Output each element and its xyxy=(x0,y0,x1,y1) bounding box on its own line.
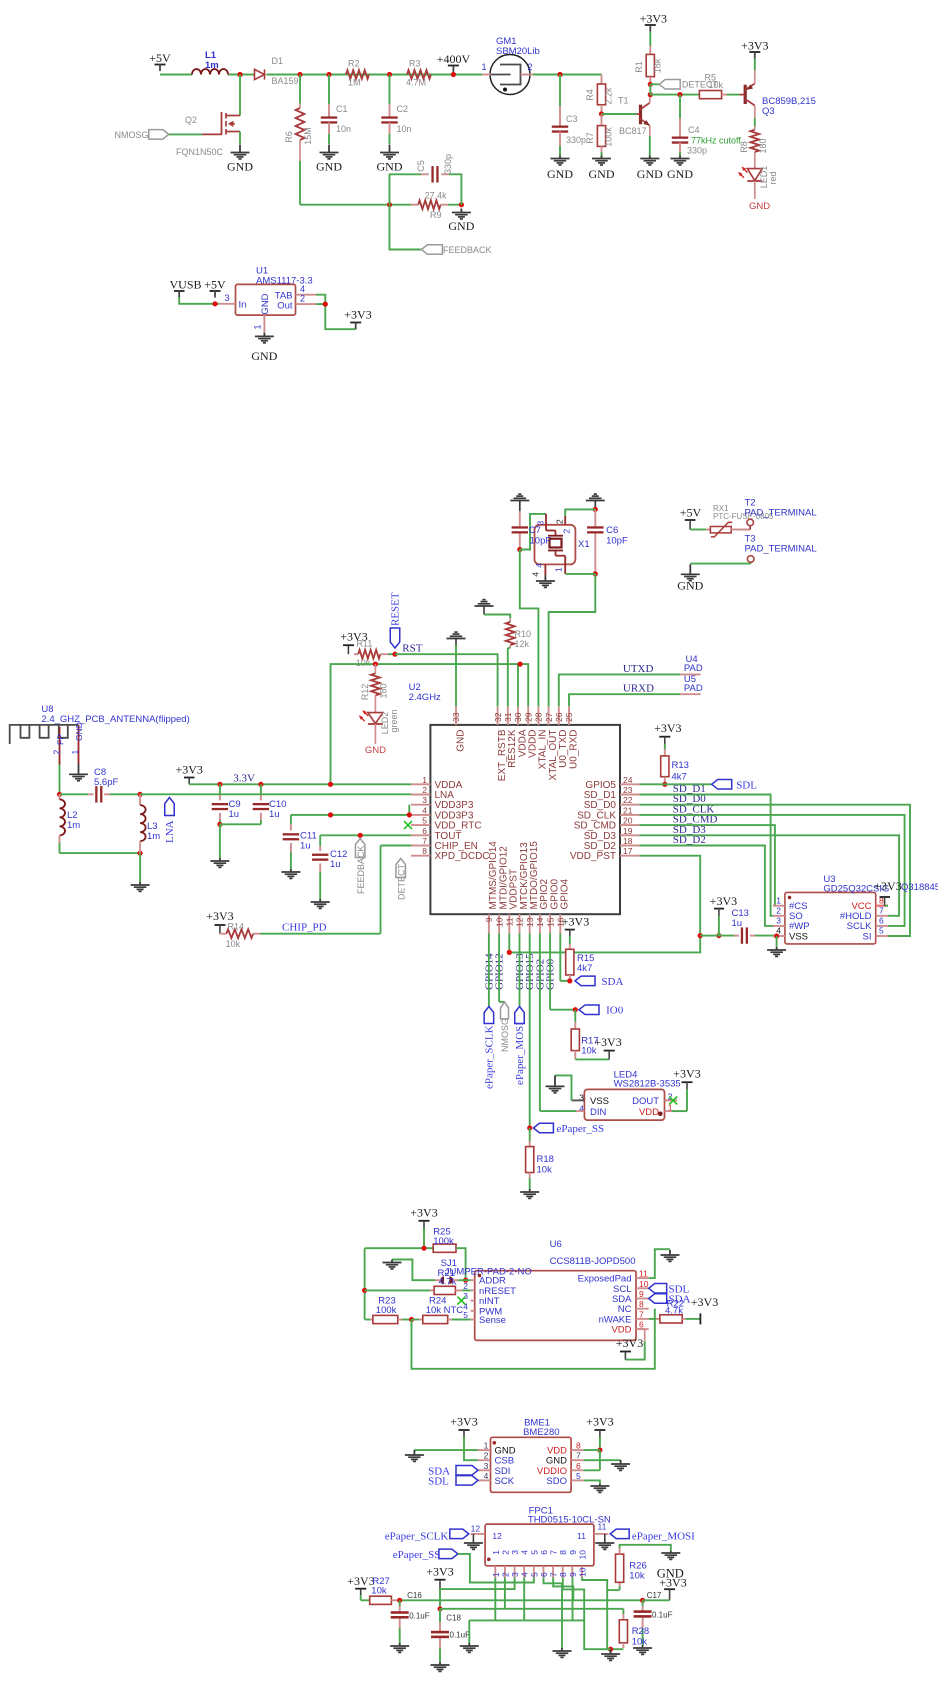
svg-text:7: 7 xyxy=(549,1550,559,1555)
svg-text:ePaper_SCLK: ePaper_SCLK xyxy=(484,1025,496,1089)
svg-text:FP: FP xyxy=(56,734,66,745)
svg-text:2: 2 xyxy=(555,519,565,524)
svg-text:6: 6 xyxy=(539,1572,549,1577)
svg-text:SDO: SDO xyxy=(546,1476,567,1487)
svg-text:9: 9 xyxy=(639,1289,644,1299)
svg-text:Q318845: Q318845 xyxy=(901,882,938,893)
svg-text:IO0: IO0 xyxy=(606,1005,624,1017)
svg-text:3: 3 xyxy=(510,1550,520,1555)
svg-text:0.1uF: 0.1uF xyxy=(450,1631,471,1640)
svg-text:ePaper_SCLK: ePaper_SCLK xyxy=(385,1531,449,1543)
svg-text:2: 2 xyxy=(776,906,781,916)
svg-text:+3V3: +3V3 xyxy=(710,894,737,908)
svg-text:CHIP_PD: CHIP_PD xyxy=(282,922,327,934)
svg-text:330p: 330p xyxy=(443,154,453,174)
svg-text:6: 6 xyxy=(576,1461,581,1471)
svg-text:SI: SI xyxy=(863,931,872,942)
svg-text:GND: GND xyxy=(547,167,573,181)
svg-text:23: 23 xyxy=(623,785,633,795)
svg-text:33: 33 xyxy=(451,712,461,722)
svg-text:2.4GHz: 2.4GHz xyxy=(409,692,441,703)
svg-text:+3V3: +3V3 xyxy=(410,1205,437,1219)
svg-text:7: 7 xyxy=(639,1309,644,1319)
svg-text:30: 30 xyxy=(513,712,523,722)
svg-text:10k: 10k xyxy=(632,1637,648,1648)
svg-text:4: 4 xyxy=(484,1471,489,1481)
svg-text:10k: 10k xyxy=(537,1165,553,1176)
svg-text:C7: C7 xyxy=(529,525,541,536)
svg-text:VDD: VDD xyxy=(611,1325,631,1336)
svg-text:1: 1 xyxy=(491,1572,501,1577)
svg-text:+3V3: +3V3 xyxy=(586,1415,613,1429)
svg-text:C5: C5 xyxy=(416,160,426,172)
svg-text:8: 8 xyxy=(576,1441,581,1451)
svg-text:red: red xyxy=(768,171,778,184)
svg-text:+3V3: +3V3 xyxy=(562,915,589,929)
svg-text:6: 6 xyxy=(422,826,427,836)
svg-text:SCK: SCK xyxy=(495,1476,515,1487)
svg-text:10pF: 10pF xyxy=(606,536,628,547)
svg-text:ePaper_MOSI: ePaper_MOSI xyxy=(514,1022,526,1085)
svg-text:31: 31 xyxy=(503,712,513,722)
svg-text:Q2: Q2 xyxy=(185,115,197,125)
svg-text:4k7: 4k7 xyxy=(672,772,687,783)
svg-text:GND: GND xyxy=(637,167,663,181)
svg-text:RST: RST xyxy=(402,643,422,655)
svg-text:20: 20 xyxy=(623,816,633,826)
svg-text:1u: 1u xyxy=(732,918,743,929)
svg-text:10: 10 xyxy=(577,1567,587,1577)
svg-text:7: 7 xyxy=(576,1451,581,1461)
svg-text:+3V3: +3V3 xyxy=(594,1035,621,1049)
svg-text:R18: R18 xyxy=(537,1154,554,1165)
svg-text:GND: GND xyxy=(667,167,693,181)
svg-text:C2: C2 xyxy=(397,104,409,114)
svg-text:SDL: SDL xyxy=(428,1476,449,1488)
svg-text:+5V: +5V xyxy=(680,506,702,520)
svg-text:GND: GND xyxy=(749,201,770,212)
svg-text:C16: C16 xyxy=(407,1591,422,1600)
svg-text:R14: R14 xyxy=(228,922,245,932)
svg-text:WS2812B-3535: WS2812B-3535 xyxy=(614,1079,681,1090)
svg-text:10: 10 xyxy=(639,1279,649,1289)
svg-text:DOUT: DOUT xyxy=(632,1096,659,1107)
svg-text:SDL: SDL xyxy=(736,780,757,792)
svg-text:+3V3: +3V3 xyxy=(640,12,667,26)
svg-text:15M: 15M xyxy=(303,127,313,145)
svg-text:6: 6 xyxy=(879,916,884,926)
svg-text:In: In xyxy=(239,299,247,310)
svg-text:R11: R11 xyxy=(357,639,373,649)
svg-text:5.6pF: 5.6pF xyxy=(94,777,118,788)
svg-text:10: 10 xyxy=(577,1550,587,1560)
svg-text:BA159: BA159 xyxy=(272,76,299,86)
svg-text:GND: GND xyxy=(677,579,703,593)
svg-text:NMOSG: NMOSG xyxy=(500,1018,510,1052)
svg-text:12: 12 xyxy=(515,917,525,927)
svg-text:77kHz cutoff: 77kHz cutoff xyxy=(691,136,741,146)
svg-text:R3: R3 xyxy=(409,59,421,69)
svg-text:10n: 10n xyxy=(397,124,412,134)
svg-text:GND: GND xyxy=(589,167,615,181)
svg-text:R1: R1 xyxy=(634,61,644,73)
svg-text:VDD: VDD xyxy=(639,1107,659,1118)
svg-text:7: 7 xyxy=(879,906,884,916)
svg-text:18: 18 xyxy=(623,836,633,846)
svg-text:8: 8 xyxy=(558,1550,568,1555)
svg-text:BC817: BC817 xyxy=(619,126,647,136)
svg-text:GND: GND xyxy=(251,349,277,363)
svg-text:10n: 10n xyxy=(336,124,351,134)
svg-text:1u: 1u xyxy=(330,859,341,870)
svg-text:+3V3: +3V3 xyxy=(654,721,681,735)
svg-text:C6: C6 xyxy=(606,525,618,536)
svg-text:+3V3: +3V3 xyxy=(450,1415,477,1429)
svg-text:19: 19 xyxy=(623,826,633,836)
svg-text:2: 2 xyxy=(527,62,532,72)
svg-text:C18: C18 xyxy=(446,1614,461,1623)
svg-text:C3: C3 xyxy=(566,114,578,124)
svg-text:9: 9 xyxy=(484,917,494,922)
svg-text:URXD: URXD xyxy=(623,683,654,695)
svg-text:3: 3 xyxy=(484,1461,489,1471)
svg-text:2: 2 xyxy=(562,529,572,534)
svg-text:27.4k: 27.4k xyxy=(425,191,448,201)
svg-text:10k: 10k xyxy=(356,658,371,668)
svg-text:UTXD: UTXD xyxy=(623,663,654,675)
svg-text:GND: GND xyxy=(455,730,466,752)
svg-text:1m: 1m xyxy=(67,820,80,831)
svg-text:1: 1 xyxy=(776,895,781,905)
svg-text:R7: R7 xyxy=(585,132,595,144)
svg-text:FEEDBACK: FEEDBACK xyxy=(356,845,366,894)
svg-text:5: 5 xyxy=(529,1550,539,1555)
svg-text:R8: R8 xyxy=(739,141,749,153)
svg-text:10k NTC: 10k NTC xyxy=(426,1305,464,1316)
svg-text:+3V3: +3V3 xyxy=(673,1067,700,1081)
svg-text:1: 1 xyxy=(70,750,80,755)
svg-text:15: 15 xyxy=(545,917,555,927)
svg-text:7: 7 xyxy=(422,836,427,846)
svg-text:PAD: PAD xyxy=(684,663,703,674)
svg-text:10: 10 xyxy=(494,917,504,927)
svg-text:6: 6 xyxy=(639,1320,644,1330)
svg-text:1: 1 xyxy=(484,1441,489,1451)
svg-text:17: 17 xyxy=(623,846,633,856)
svg-text:VSS: VSS xyxy=(789,931,808,942)
svg-text:330p: 330p xyxy=(566,135,586,145)
svg-text:U6: U6 xyxy=(550,1239,562,1250)
svg-text:2: 2 xyxy=(52,750,62,755)
svg-text:5: 5 xyxy=(463,1310,468,1320)
svg-text:11: 11 xyxy=(598,1522,607,1532)
svg-text:FQN1N50C: FQN1N50C xyxy=(176,147,224,157)
svg-text:PAD: PAD xyxy=(684,683,703,694)
svg-text:DETECT: DETECT xyxy=(397,863,407,900)
svg-text:+3V3: +3V3 xyxy=(659,1576,686,1590)
svg-text:R4: R4 xyxy=(585,89,595,101)
svg-text:Out: Out xyxy=(277,300,293,311)
svg-text:+3V3: +3V3 xyxy=(616,1336,643,1350)
svg-text:1m: 1m xyxy=(205,60,219,71)
svg-text:0.1uF: 0.1uF xyxy=(652,1611,673,1620)
svg-text:100k: 100k xyxy=(433,1236,454,1247)
svg-text:SBM20Lib: SBM20Lib xyxy=(496,46,540,57)
svg-text:ePaper_MOSI: ePaper_MOSI xyxy=(632,1531,695,1543)
svg-text:GND: GND xyxy=(227,160,253,174)
svg-text:Sense: Sense xyxy=(479,1315,506,1326)
svg-text:11: 11 xyxy=(577,1531,586,1541)
svg-text:1: 1 xyxy=(422,775,427,785)
svg-text:5: 5 xyxy=(576,1471,581,1481)
svg-text:3: 3 xyxy=(422,795,427,805)
svg-text:R2: R2 xyxy=(348,59,360,69)
svg-text:C1: C1 xyxy=(336,104,348,114)
svg-text:1: 1 xyxy=(491,1550,501,1555)
svg-text:10k: 10k xyxy=(629,1571,645,1582)
svg-text:FEEDBACK: FEEDBACK xyxy=(443,245,492,255)
svg-text:10k: 10k xyxy=(709,80,724,90)
svg-text:+3V3: +3V3 xyxy=(426,1565,453,1579)
svg-text:3.3V: 3.3V xyxy=(233,772,255,784)
svg-text:11: 11 xyxy=(639,1269,648,1279)
svg-text:VUSB: VUSB xyxy=(169,278,201,292)
svg-text:PAD_TERMINAL: PAD_TERMINAL xyxy=(745,544,817,555)
svg-text:29: 29 xyxy=(523,712,533,722)
svg-text:11: 11 xyxy=(505,917,515,926)
svg-text:8: 8 xyxy=(639,1299,644,1309)
svg-text:+3V3: +3V3 xyxy=(691,1295,718,1309)
svg-text:XPD_DCDC: XPD_DCDC xyxy=(435,851,490,862)
svg-text:9: 9 xyxy=(568,1550,578,1555)
svg-text:5: 5 xyxy=(422,816,427,826)
svg-text:32: 32 xyxy=(493,712,503,722)
svg-text:R10: R10 xyxy=(515,629,532,639)
svg-text:+5V: +5V xyxy=(204,278,226,292)
svg-text:100k: 100k xyxy=(376,1305,397,1316)
svg-text:28: 28 xyxy=(534,712,544,722)
svg-text:12k: 12k xyxy=(515,639,530,649)
svg-text:4: 4 xyxy=(520,1550,530,1555)
svg-text:4.7M: 4.7M xyxy=(406,78,426,88)
svg-text:3: 3 xyxy=(224,293,229,303)
svg-text:0.1uF: 0.1uF xyxy=(409,1612,430,1621)
svg-text:1: 1 xyxy=(481,62,486,72)
svg-text:X1: X1 xyxy=(578,539,590,550)
svg-text:D1: D1 xyxy=(272,56,284,66)
svg-text:C17: C17 xyxy=(647,1591,662,1600)
svg-text:8: 8 xyxy=(422,846,427,856)
svg-text:26: 26 xyxy=(554,712,564,722)
svg-text:4: 4 xyxy=(422,805,427,815)
svg-text:1M: 1M xyxy=(348,78,361,88)
svg-text:4: 4 xyxy=(520,1572,530,1577)
svg-text:4k7: 4k7 xyxy=(577,963,592,974)
svg-text:R13: R13 xyxy=(672,760,689,771)
svg-text:R28: R28 xyxy=(632,1626,649,1637)
svg-text:3: 3 xyxy=(463,1291,468,1301)
svg-text:4: 4 xyxy=(534,563,544,568)
svg-text:GPIO4: GPIO4 xyxy=(560,878,571,909)
svg-text:14: 14 xyxy=(535,917,545,927)
svg-text:DIN: DIN xyxy=(590,1107,607,1118)
svg-text:180: 180 xyxy=(758,138,768,153)
svg-text:3: 3 xyxy=(776,916,781,926)
svg-text:R6: R6 xyxy=(284,131,294,143)
svg-text:GND: GND xyxy=(316,160,342,174)
svg-text:180: 180 xyxy=(379,683,389,698)
svg-text:24: 24 xyxy=(623,775,633,785)
svg-text:+3V3: +3V3 xyxy=(874,879,901,893)
svg-text:+5V: +5V xyxy=(149,51,171,65)
svg-text:GND: GND xyxy=(260,293,271,314)
svg-text:6: 6 xyxy=(539,1550,549,1555)
svg-text:+400V: +400V xyxy=(437,52,471,66)
svg-text:green: green xyxy=(389,709,399,732)
svg-text:1: 1 xyxy=(253,324,263,329)
svg-text:LNA: LNA xyxy=(164,820,176,843)
svg-text:2: 2 xyxy=(500,1550,510,1555)
svg-text:18k: 18k xyxy=(653,58,663,73)
svg-text:T1: T1 xyxy=(618,96,629,106)
svg-text:2.2k: 2.2k xyxy=(604,87,614,105)
svg-text:SDA: SDA xyxy=(601,976,623,988)
svg-text:PAD_TERMINAL: PAD_TERMINAL xyxy=(745,508,817,519)
svg-text:Q3: Q3 xyxy=(762,106,775,117)
svg-text:1m: 1m xyxy=(147,831,160,842)
svg-text:JUMPER-PAD-2-NO: JUMPER-PAD-2-NO xyxy=(445,1267,532,1278)
svg-text:2.4_GHZ_PCB_ANTENNA(flipped): 2.4_GHZ_PCB_ANTENNA(flipped) xyxy=(41,714,189,725)
svg-text:21: 21 xyxy=(623,805,633,815)
svg-text:5: 5 xyxy=(529,1572,539,1577)
svg-text:10k: 10k xyxy=(371,1585,387,1596)
svg-text:VSS: VSS xyxy=(590,1096,609,1107)
svg-text:+3V3: +3V3 xyxy=(175,763,202,777)
svg-text:BME280: BME280 xyxy=(523,1427,559,1438)
svg-text:1: 1 xyxy=(554,567,564,572)
svg-text:+3V3: +3V3 xyxy=(344,308,371,322)
svg-text:2: 2 xyxy=(300,293,305,303)
svg-text:25: 25 xyxy=(564,712,574,722)
svg-text:1u: 1u xyxy=(229,809,240,820)
svg-text:U0_RXD: U0_RXD xyxy=(568,730,579,769)
svg-text:GND: GND xyxy=(74,722,84,741)
svg-text:12: 12 xyxy=(492,1531,502,1541)
svg-text:CCS811B-JOPD500: CCS811B-JOPD500 xyxy=(550,1256,636,1267)
svg-text:5: 5 xyxy=(879,926,884,936)
svg-text:100k: 100k xyxy=(604,127,614,147)
svg-text:RESET: RESET xyxy=(390,592,402,626)
svg-text:2: 2 xyxy=(500,1572,510,1577)
svg-text:GND: GND xyxy=(377,160,403,174)
svg-text:GND: GND xyxy=(365,745,386,756)
svg-text:12: 12 xyxy=(471,1524,481,1534)
svg-text:10k: 10k xyxy=(226,939,241,949)
svg-text:330p: 330p xyxy=(687,146,707,156)
svg-text:GND: GND xyxy=(448,219,474,233)
svg-text:13: 13 xyxy=(525,917,535,927)
svg-text:10pF: 10pF xyxy=(530,536,552,547)
svg-text:+3V3: +3V3 xyxy=(741,39,768,53)
svg-text:ePaper_SS: ePaper_SS xyxy=(557,1123,605,1135)
svg-text:4: 4 xyxy=(531,572,541,577)
svg-text:2: 2 xyxy=(422,785,427,795)
svg-text:NMOSG: NMOSG xyxy=(114,130,148,140)
svg-text:9: 9 xyxy=(568,1572,578,1577)
svg-text:C4: C4 xyxy=(688,125,700,135)
svg-text:R12: R12 xyxy=(360,684,370,701)
svg-text:8: 8 xyxy=(558,1572,568,1577)
svg-text:2: 2 xyxy=(484,1451,489,1461)
svg-text:VDD_PST: VDD_PST xyxy=(570,851,616,862)
svg-text:1u: 1u xyxy=(269,809,280,820)
svg-text:27: 27 xyxy=(544,712,554,722)
svg-text:1u: 1u xyxy=(300,841,311,852)
svg-text:3: 3 xyxy=(510,1572,520,1577)
svg-text:R9: R9 xyxy=(430,210,442,220)
svg-text:22: 22 xyxy=(623,795,633,805)
svg-text:7: 7 xyxy=(549,1572,559,1577)
svg-text:ePaper_SS: ePaper_SS xyxy=(393,1549,441,1561)
